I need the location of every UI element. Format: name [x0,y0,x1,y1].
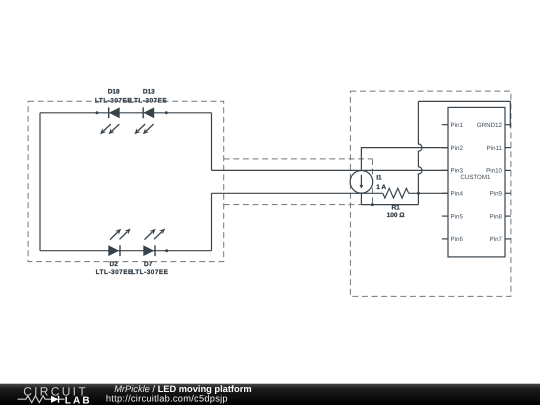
wire node A to Pin3 [212,169,449,171]
LED D2 symbol [108,245,120,256]
pin 10 lead [505,169,511,171]
CircuitLab logo wire-resistor-diode glyph [18,396,65,403]
LED D13 symbol [143,107,154,118]
svg-text:R1: R1 [391,204,400,211]
controller subcircuit dashed boundary (right box) [350,91,511,296]
LED D7 emission arrows [145,229,166,240]
svg-text:LTL-307EE: LTL-307EE [131,269,168,276]
LED D2 emission arrows [110,229,131,240]
LED D18 emission arrows [100,124,119,134]
svg-text:LTL-307EE: LTL-307EE [95,98,132,105]
svg-text:LTL-307EE: LTL-307EE [130,98,167,105]
IC U1 CUSTOM1 body [448,107,505,257]
svg-text:Pin6: Pin6 [451,236,464,243]
current source I1 arrow [360,175,364,189]
wire I1 top lead to Pin2 [361,148,448,171]
svg-text:Pin8: Pin8 [490,213,503,220]
dashed boundary tongue right edge [372,159,374,205]
dashed boundary tongue bottom edge [224,204,362,206]
LED D13 emission arrows [134,124,153,134]
svg-text:http://circuitlab.com/c5dpsjp: http://circuitlab.com/c5dpsjp [106,393,228,403]
svg-text:LAB: LAB [65,395,92,405]
svg-text:Pin1: Pin1 [451,122,464,129]
junction dot top-left [96,111,99,114]
svg-text:Pin7: Pin7 [490,236,503,243]
wire vertical riser with hops over Pin2 and Pin3 wires [418,101,422,204]
svg-text:I1: I1 [376,175,382,182]
svg-text:Pin11: Pin11 [487,145,503,152]
pin 8 lead [505,215,511,217]
svg-text:GRND12: GRND12 [477,122,503,129]
LED D18 symbol [109,107,120,118]
LED D7 symbol [143,245,155,256]
svg-text:D2: D2 [110,261,119,268]
dashed boundary tongue top edge [224,158,373,160]
junction dot bottom-right [165,249,168,252]
junction dot I1 bottom net [371,203,374,206]
svg-text:Pin4: Pin4 [451,191,464,198]
pin 5 lead [442,215,448,217]
junction dot R1 right / Pin4 [417,192,420,195]
current source I1 circle [350,171,373,194]
footer bar [0,383,540,405]
wire left vertical [39,113,41,251]
pin 2 lead [442,147,448,149]
svg-text:1 A: 1 A [376,184,386,191]
wire right vertical lower [211,193,213,250]
svg-text:D13: D13 [143,88,155,95]
wire bottom LED row [40,250,212,252]
pin 1 lead [442,124,448,126]
svg-text:CUSTOM1: CUSTOM1 [460,174,491,181]
resistor R1 zigzag [383,188,409,198]
wire right vertical upper [211,113,213,171]
wire R1 right lead to Pin4 [409,192,448,194]
wire I1 bottom to vertical riser [361,204,418,206]
wire I1 bottom lead [360,193,362,204]
wire riser to GRND12 [418,101,510,127]
svg-text:Pin9: Pin9 [490,191,503,198]
svg-text:D7: D7 [144,261,153,268]
svg-text:100 Ω: 100 Ω [387,212,405,219]
pin 11 lead [505,147,511,149]
junction dot top-right [165,111,168,114]
wire node B to R1 [212,192,383,194]
svg-text:Pin2: Pin2 [451,145,464,152]
svg-text:Pin5: Pin5 [451,213,464,220]
pin 4 lead [442,192,448,194]
pin 12 GRND12 lead [505,124,511,126]
pin 7 lead [505,238,511,240]
pin 6 lead [442,238,448,240]
svg-text:D18: D18 [108,88,120,95]
pin 9 lead [505,192,511,194]
footer black bar [0,384,540,405]
moving platform subcircuit dashed boundary (left box) [28,101,224,261]
wire top LED row [40,112,212,114]
svg-text:LTL-307EE: LTL-307EE [96,269,133,276]
pin 3 lead [442,169,448,171]
